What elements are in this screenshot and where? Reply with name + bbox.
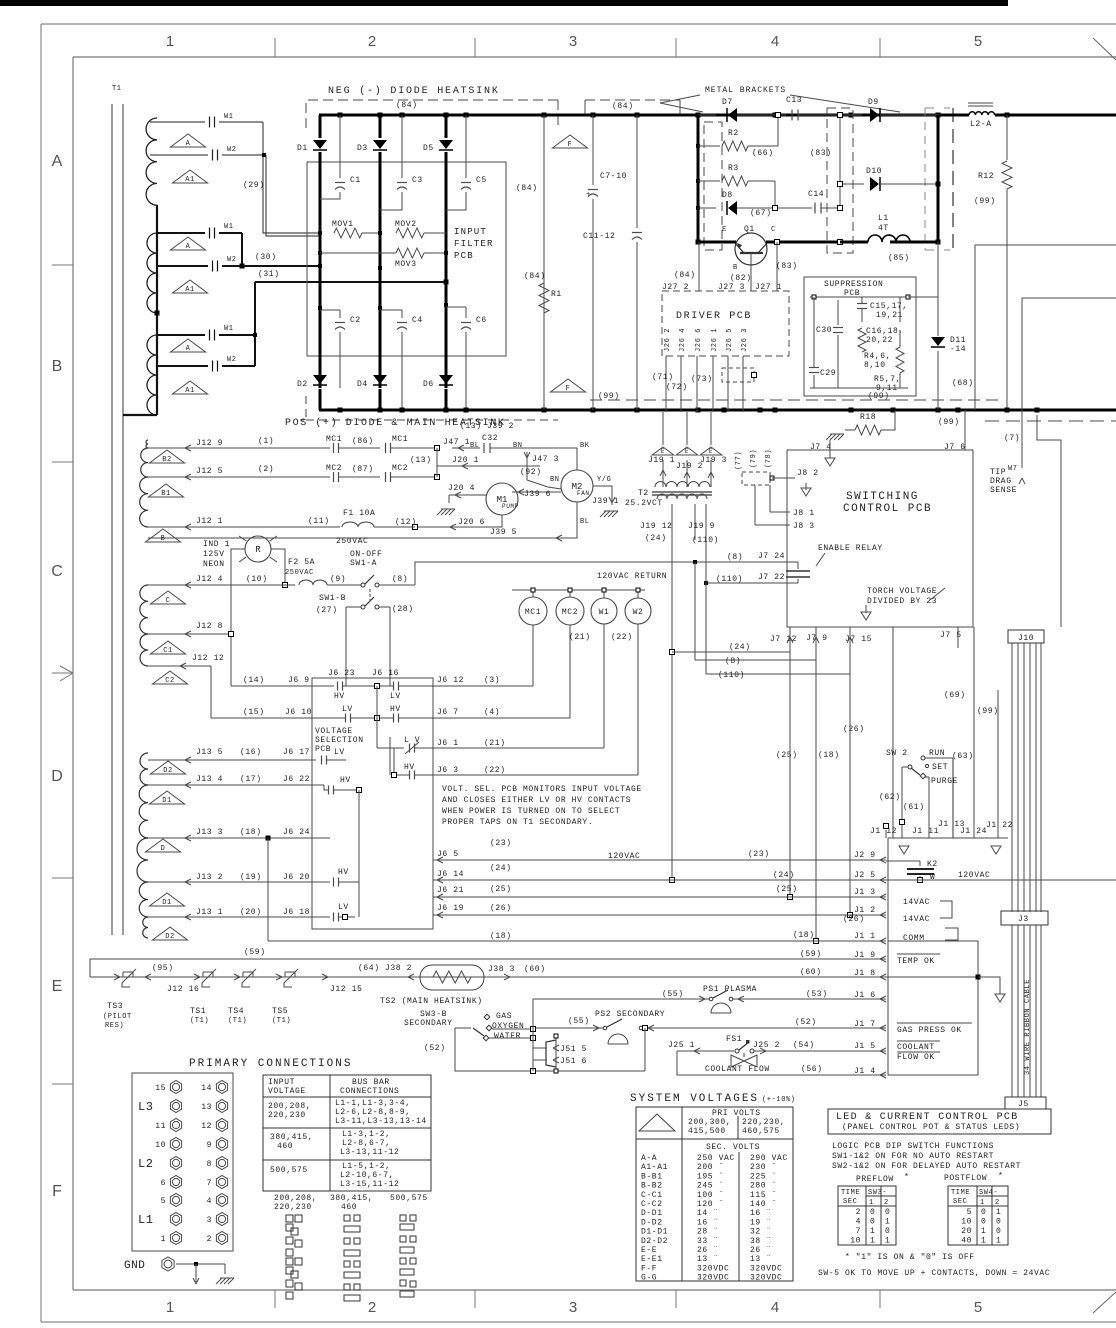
svg-text:(84): (84)	[524, 272, 546, 281]
capacitor C4	[378, 306, 382, 310]
svg-text:40: 40	[961, 1237, 972, 1246]
svg-text:(82): (82)	[730, 274, 752, 283]
svg-text:J6 23: J6 23	[328, 669, 355, 678]
wire J13 5	[148, 759, 316, 761]
T1 primary winding coil 2	[147, 233, 157, 313]
warning triangle A phase3	[170, 339, 205, 352]
cap LV row1	[380, 685, 393, 687]
wire C11-12 column to driver	[636, 241, 638, 243]
svg-text:12: 12	[201, 1122, 212, 1131]
svg-text:J20 6: J20 6	[458, 518, 485, 527]
svg-text:7: 7	[207, 1179, 212, 1188]
svg-text:A: A	[186, 345, 191, 353]
border inner frame	[73, 56, 1116, 58]
svg-text:J38 2: J38 2	[385, 964, 412, 973]
MOV2 varistor	[378, 231, 382, 235]
svg-text:J27 2: J27 2	[662, 283, 689, 292]
svg-text:J1 24: J1 24	[960, 827, 987, 836]
bus table header divider	[263, 1096, 431, 1098]
svg-text:SEC. VOLTS: SEC. VOLTS	[706, 1143, 760, 1152]
svg-text:(2): (2)	[258, 465, 274, 474]
svg-text:J39 6: J39 6	[524, 490, 551, 499]
svg-text:LV: LV	[342, 705, 353, 714]
svg-text:(59): (59)	[244, 948, 266, 957]
svg-text:120VAC: 120VAC	[958, 871, 990, 880]
J7 12 stub	[789, 627, 791, 652]
svg-text:BN: BN	[550, 476, 560, 484]
svg-text:C29: C29	[820, 369, 836, 378]
enable relay contact	[786, 570, 810, 572]
svg-text:(T1): (T1)	[190, 1017, 209, 1025]
svg-text:W: W	[930, 873, 935, 882]
svg-text:230 ¨: 230 ¨	[750, 1163, 777, 1172]
svg-text:320VDC: 320VDC	[697, 1274, 729, 1283]
svg-text:1: 1	[996, 1237, 1001, 1246]
svg-text:C5: C5	[476, 176, 487, 185]
svg-text:(110): (110)	[716, 575, 743, 584]
wire J12 12 down to J6 10 row	[210, 666, 212, 718]
svg-text:C32: C32	[482, 434, 498, 443]
wire (110) long run	[705, 530, 707, 674]
svg-text:1: 1	[885, 1237, 890, 1246]
svg-text:HV: HV	[390, 705, 401, 714]
SW2 contacts	[921, 756, 925, 760]
svg-text:(56): (56)	[801, 1065, 823, 1074]
svg-text:(26): (26)	[843, 915, 865, 924]
svg-text:W1: W1	[224, 223, 234, 231]
svg-text:D9: D9	[868, 98, 879, 107]
svg-text:1: 1	[869, 1199, 874, 1207]
svg-text:(23): (23)	[748, 850, 770, 859]
svg-text:(18): (18)	[490, 932, 512, 941]
svg-text:B2: B2	[162, 456, 172, 464]
warning triangle A1 phase1	[172, 170, 207, 183]
svg-text:(13) J39 2: (13) J39 2	[460, 422, 514, 431]
SW2 wires	[925, 757, 953, 759]
svg-text:HV: HV	[338, 868, 349, 877]
J7 15 stub	[849, 627, 851, 674]
wire (30) phase B	[241, 233, 243, 266]
svg-text:J6 9: J6 9	[288, 676, 310, 685]
dashed 99 below bus right	[985, 420, 1116, 422]
svg-text:D7: D7	[722, 98, 733, 107]
row J1 4 (56)	[677, 1051, 886, 1075]
svg-text:500,575: 500,575	[390, 1194, 428, 1203]
svg-text:J6 10: J6 10	[285, 708, 312, 717]
wire (99) down to J1 24	[973, 627, 975, 838]
svg-text:C-C2: C-C2	[641, 1200, 663, 1209]
svg-text:FILTER: FILTER	[454, 239, 494, 249]
svg-text:(52): (52)	[795, 1018, 817, 1027]
svg-text:(55): (55)	[568, 1017, 590, 1026]
svg-text:LV: LV	[338, 903, 349, 912]
svg-text:140 ¨: 140 ¨	[750, 1200, 777, 1209]
water wire to feed column	[489, 1037, 530, 1039]
svg-text:TIME: TIME	[951, 1189, 970, 1197]
svg-text:SWITCHING: SWITCHING	[846, 491, 919, 503]
warning triangle E b	[676, 447, 698, 455]
lamp left leg down to J6 9 row	[231, 549, 245, 686]
row J6 12 out	[433, 685, 533, 687]
svg-text:(1): (1)	[258, 437, 274, 446]
thermostat row	[90, 976, 523, 978]
svg-text:R5,7,: R5,7,	[874, 375, 901, 384]
svg-text:C1: C1	[350, 176, 361, 185]
svg-text:D2: D2	[297, 380, 308, 389]
svg-text:PCB: PCB	[315, 745, 331, 754]
capacitor C5	[465, 115, 467, 178]
J51 stubs	[533, 1047, 547, 1049]
jumper pattern column 3	[400, 1215, 406, 1221]
capacitor C3	[401, 115, 403, 178]
svg-text:(28): (28)	[392, 605, 414, 614]
svg-text:(61): (61)	[903, 803, 925, 812]
svg-text:1: 1	[981, 1237, 986, 1246]
svg-text:(21): (21)	[484, 739, 506, 748]
svg-text:J7 6: J7 6	[944, 443, 966, 452]
svg-text:(21): (21)	[569, 633, 591, 642]
svg-text:D-D2: D-D2	[641, 1218, 663, 1227]
svg-text:D: D	[161, 845, 166, 853]
svg-text:J6 14: J6 14	[437, 870, 464, 879]
svg-text:(60): (60)	[800, 968, 822, 977]
T2 secondary wires	[671, 504, 673, 540]
vsel right column box	[389, 737, 391, 775]
L1 to right bracket bus	[890, 241, 938, 244]
svg-text:(86): (86)	[352, 437, 374, 446]
corner diagonal top right	[1093, 38, 1116, 60]
svg-text:TS1: TS1	[190, 1007, 206, 1016]
svg-text:(22): (22)	[484, 766, 506, 775]
J1 row stubs	[884, 824, 889, 829]
svg-text:J39 5: J39 5	[490, 528, 517, 537]
CT cap W2 phase A	[150, 154, 208, 156]
K2 relay	[886, 860, 920, 862]
svg-text:D2: D2	[165, 933, 175, 941]
svg-text:(26): (26)	[490, 904, 512, 913]
metal bracket dashed box left	[704, 122, 722, 250]
svg-text:TS3: TS3	[107, 1002, 123, 1011]
svg-text:BUS BAR: BUS BAR	[352, 1078, 390, 1087]
svg-text:+: +	[586, 191, 591, 199]
neg heatsink dashed bracket 2	[585, 99, 680, 101]
wire J13 1	[148, 916, 330, 918]
svg-text:4: 4	[207, 1197, 212, 1206]
svg-text:J12 1: J12 1	[196, 517, 223, 526]
svg-text:(60): (60)	[524, 965, 546, 974]
svg-text:DRAG: DRAG	[990, 477, 1012, 486]
resistor R5 group	[896, 347, 904, 373]
svg-text:320VDC: 320VDC	[750, 1264, 782, 1273]
svg-text:L2-8,6-7,: L2-8,6-7,	[342, 1139, 391, 1148]
LED CURRENT CONTROL PCB box	[828, 1109, 1051, 1134]
svg-text:PS1 PLASMA: PS1 PLASMA	[703, 985, 757, 994]
svg-text:14VAC: 14VAC	[903, 915, 930, 924]
svg-text:A1-A1: A1-A1	[641, 1163, 668, 1172]
svg-text:(15): (15)	[243, 708, 265, 717]
lamp right leg to J12 4 row	[271, 549, 285, 585]
svg-text:C11-12: C11-12	[583, 232, 615, 241]
warning triangle B	[145, 529, 180, 542]
svg-text:BK: BK	[580, 442, 590, 450]
svg-text:W1: W1	[224, 113, 234, 121]
svg-text:(30): (30)	[255, 253, 277, 262]
svg-text:(29): (29)	[243, 181, 265, 190]
system voltages box	[636, 1107, 793, 1281]
capacitor MC2 b	[385, 472, 387, 482]
svg-text:J27 3: J27 3	[718, 283, 745, 292]
svg-text:B-B1: B-B1	[641, 1172, 663, 1181]
svg-text:(PANEL CONTROL POT & STATUS LE: (PANEL CONTROL POT & STATUS LEDS)	[842, 1123, 1020, 1132]
svg-text:F: F	[566, 385, 571, 393]
svg-text:FLOW OK: FLOW OK	[897, 1053, 935, 1062]
svg-text:D1-D1: D1-D1	[641, 1228, 668, 1237]
svg-text:(7): (7)	[1004, 434, 1020, 443]
svg-text:200,208,: 200,208,	[274, 1194, 317, 1203]
svg-text:10: 10	[850, 1237, 861, 1246]
svg-text:L1: L1	[138, 1213, 153, 1227]
svg-text:L3-15,11-12: L3-15,11-12	[340, 1180, 399, 1189]
feed column x533	[532, 999, 534, 1071]
svg-text:(16): (16)	[240, 748, 262, 757]
svg-text:C14: C14	[808, 190, 824, 199]
svg-text:GND: GND	[124, 1260, 145, 1272]
svg-text:MOV2: MOV2	[395, 220, 417, 229]
svg-text:J19 12: J19 12	[640, 522, 672, 531]
resistor R3	[696, 179, 700, 183]
thermostat TS1	[202, 972, 204, 977]
row J6 7 out	[433, 717, 570, 719]
capacitor C13	[791, 110, 793, 121]
right pcb block corner	[975, 244, 1116, 246]
svg-text:10: 10	[155, 1141, 166, 1150]
svg-text:4: 4	[771, 1299, 779, 1316]
svg-text:C15,17,: C15,17,	[870, 302, 908, 311]
svg-text:J6 16: J6 16	[372, 669, 399, 678]
svg-text:CONNECTIONS: CONNECTIONS	[340, 1087, 399, 1096]
cap LV row2	[345, 714, 347, 723]
status box right	[888, 941, 978, 1075]
diode D9	[870, 108, 879, 122]
wire J13 4	[148, 784, 324, 786]
svg-text:A: A	[186, 243, 191, 251]
J39 5 wire	[148, 537, 427, 539]
capacitor C2	[318, 306, 322, 310]
svg-text:ON-OFF: ON-OFF	[350, 550, 382, 559]
svg-text:14: 14	[201, 1084, 212, 1093]
svg-text:(99): (99)	[974, 197, 996, 206]
svg-text:PRIMARY CONNECTIONS: PRIMARY CONNECTIONS	[189, 1058, 352, 1070]
svg-text:METAL BRACKETS: METAL BRACKETS	[705, 86, 786, 95]
svg-text:120VAC: 120VAC	[608, 852, 640, 861]
svg-text:PUMP: PUMP	[502, 503, 519, 510]
svg-text:A1: A1	[185, 387, 195, 395]
capacitor MC2 a	[333, 472, 335, 482]
J8 2 arrow	[772, 477, 795, 479]
bus table divider vertical	[329, 1075, 331, 1191]
svg-text:VOLTAGE: VOLTAGE	[268, 1087, 306, 1096]
svg-text:*: *	[904, 1173, 909, 1182]
svg-text:125V: 125V	[203, 550, 225, 559]
neg heatsink dashed outline	[306, 100, 558, 128]
dashed option oval	[722, 368, 754, 382]
svg-text:C6: C6	[476, 316, 487, 325]
wires to J8 1 J8 3	[754, 485, 756, 525]
svg-text:280 ¨: 280 ¨	[750, 1182, 777, 1191]
diode D4	[373, 375, 387, 384]
top black banner bar	[0, 0, 1008, 6]
svg-text:C7-10: C7-10	[600, 172, 627, 181]
(99) dashed line above pos bus	[590, 399, 1000, 401]
column D1 thick wire	[319, 152, 322, 388]
svg-text:J12 4: J12 4	[196, 575, 223, 584]
coil bottom wires	[532, 625, 534, 686]
inductor L1 4T	[868, 235, 910, 242]
vertical wires center-down	[789, 652, 791, 897]
svg-text:SET: SET	[932, 763, 948, 772]
wire J12 4 row	[148, 584, 295, 586]
sysv header divider	[636, 1138, 793, 1140]
svg-text:(8): (8)	[725, 657, 741, 666]
zone ticks left	[52, 264, 73, 266]
sysv triangle symbol	[639, 1114, 675, 1131]
svg-text:MC1: MC1	[525, 608, 541, 617]
warning triangle E a	[652, 447, 674, 455]
svg-text:COOLANT: COOLANT	[897, 1043, 935, 1052]
fuse F1	[342, 522, 374, 527]
svg-text:(14): (14)	[243, 676, 265, 685]
svg-text:J13 3: J13 3	[196, 828, 223, 837]
secondary coil bumps left column	[146, 440, 148, 448]
bus junctions	[338, 113, 343, 118]
svg-text:(84): (84)	[674, 271, 696, 280]
svg-text:A: A	[52, 153, 63, 170]
svg-text:(85): (85)	[888, 254, 910, 263]
wire (8) long run	[694, 562, 696, 660]
fan BL wire down	[427, 502, 577, 538]
svg-text:R1: R1	[551, 290, 562, 299]
svg-text:(24): (24)	[773, 871, 795, 880]
svg-text:28 ¨: 28 ¨	[697, 1228, 719, 1237]
svg-text:SECONDARY: SECONDARY	[404, 1019, 453, 1028]
row J6 5 (23)	[433, 859, 886, 861]
svg-text:J39 1: J39 1	[592, 497, 619, 506]
thick vertical bracket bus left	[697, 115, 700, 242]
svg-text:HV: HV	[340, 776, 351, 785]
svg-text:R2: R2	[728, 129, 739, 138]
svg-text:1: 1	[161, 1235, 166, 1244]
suppression top rail	[810, 296, 908, 298]
warning triangle A phase2	[170, 237, 205, 250]
capacitor C1	[339, 115, 341, 178]
svg-text:SYSTEM VOLTAGES: SYSTEM VOLTAGES	[630, 1093, 759, 1105]
svg-text:PURGE: PURGE	[931, 777, 958, 786]
bracket crossing wire x840	[839, 115, 841, 205]
svg-text:ENABLE RELAY: ENABLE RELAY	[818, 544, 883, 553]
fuse F1 wire J12 1	[148, 526, 340, 528]
svg-text:DIVIDED BY 23: DIVIDED BY 23	[867, 597, 937, 606]
svg-text:COOLANT FLOW: COOLANT FLOW	[705, 1065, 770, 1074]
PS2 pressure switch	[607, 1019, 622, 1027]
svg-text:D10: D10	[866, 167, 882, 176]
svg-text:5: 5	[974, 1299, 982, 1316]
svg-text:J7 22: J7 22	[758, 573, 785, 582]
svg-text:J6 20: J6 20	[283, 873, 310, 882]
svg-text:320VDC: 320VDC	[697, 1264, 729, 1273]
svg-text:J8 2: J8 2	[797, 469, 819, 478]
svg-text:E: E	[722, 226, 727, 234]
svg-text:T2: T2	[638, 489, 649, 498]
svg-text:SW4-: SW4-	[979, 1189, 998, 1197]
svg-text:2: 2	[995, 1199, 1000, 1207]
svg-text:(55): (55)	[662, 990, 684, 999]
row J6 10 wire	[211, 717, 345, 719]
svg-text:FS1: FS1	[726, 1035, 742, 1044]
J47 3 wire	[526, 452, 528, 480]
diode D7	[698, 114, 716, 116]
warning triangle F bottom	[550, 379, 585, 392]
svg-text:(24): (24)	[645, 534, 667, 543]
svg-text:GAS PRESS OK: GAS PRESS OK	[897, 1026, 962, 1035]
T1 primary feed vertical	[156, 205, 158, 415]
svg-text:J6 24: J6 24	[283, 828, 310, 837]
svg-text:J26 1: J26 1	[711, 328, 719, 352]
svg-text:J38 3: J38 3	[488, 965, 515, 974]
svg-text:FAN: FAN	[577, 490, 590, 497]
svg-text:TIP: TIP	[990, 468, 1006, 477]
svg-text:J6 12: J6 12	[437, 676, 464, 685]
svg-text:D3: D3	[357, 144, 368, 153]
svg-text:PCB: PCB	[454, 251, 474, 261]
svg-text:1: 1	[870, 1237, 875, 1246]
svg-text:Q1: Q1	[744, 225, 755, 234]
svg-text:1: 1	[885, 1218, 890, 1227]
row J6 14 (24)	[433, 879, 886, 881]
svg-text:W1: W1	[224, 325, 234, 333]
svg-text:(59): (59)	[800, 950, 822, 959]
zone ticks bottom	[274, 1290, 276, 1308]
svg-text:J51 5: J51 5	[560, 1045, 587, 1054]
svg-text:B-B2: B-B2	[641, 1182, 663, 1191]
svg-text:19,21: 19,21	[876, 311, 903, 320]
svg-text:J8 3: J8 3	[793, 522, 815, 531]
column D3 thick wire	[379, 152, 382, 388]
svg-text:(8): (8)	[392, 575, 408, 584]
svg-text:3: 3	[569, 33, 577, 50]
wire (7) right edge	[1035, 408, 1040, 413]
coolant flow valve	[743, 1053, 745, 1057]
svg-text:TS2 (MAIN HEATSINK): TS2 (MAIN HEATSINK)	[380, 997, 483, 1006]
svg-text:1: 1	[980, 1199, 985, 1207]
capacitor C29	[809, 367, 819, 369]
svg-text:200,208,: 200,208,	[268, 1102, 311, 1111]
warning triangle D1 lower	[149, 893, 184, 906]
svg-text:(18): (18)	[818, 751, 840, 760]
CT cap W1 phase A	[150, 121, 205, 123]
svg-text:L3-13,11-12: L3-13,11-12	[340, 1148, 399, 1157]
diode D10	[843, 183, 864, 185]
svg-text:0: 0	[996, 1227, 1001, 1236]
phase B junction at D3 column	[378, 266, 382, 270]
metal bracket dashed box mid	[827, 108, 853, 253]
svg-text:J7 4: J7 4	[810, 443, 832, 452]
wire Q1 collector down to driver	[776, 242, 778, 291]
M2 fan motor	[561, 470, 593, 502]
R18 resistor	[826, 434, 832, 440]
svg-text:SENSE: SENSE	[990, 486, 1017, 495]
svg-text:SW3-: SW3-	[868, 1189, 887, 1197]
svg-text:SW-5 OK TO MOVE UP + CONTACTS: SW-5 OK TO MOVE UP + CONTACTS, DOWN = 24…	[818, 1269, 1050, 1278]
